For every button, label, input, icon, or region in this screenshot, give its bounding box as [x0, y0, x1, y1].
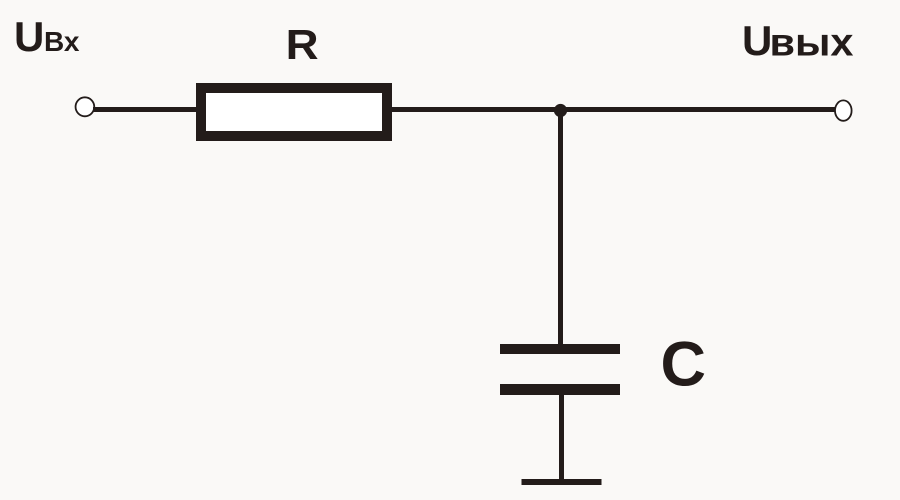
resistor R: [201, 21, 387, 136]
wire capacitor C to ground: [559, 393, 564, 480]
input terminal circle: [76, 97, 95, 116]
wire junction down to capacitor C: [558, 110, 563, 346]
ground: [522, 479, 602, 485]
svg-text:вых: вых: [770, 22, 854, 65]
svg-text:C: C: [661, 330, 707, 400]
wire resistor R to output terminal: [392, 107, 836, 112]
svg-text:Вх: Вх: [44, 26, 80, 57]
svg-text:R: R: [286, 21, 319, 68]
svg-text:U: U: [742, 17, 772, 64]
output terminal circle: [835, 100, 852, 120]
wire input terminal to resistor R: [93, 107, 200, 112]
node junction dot: [554, 104, 567, 117]
node Uвх (input label): [14, 13, 80, 60]
capacitor C: [500, 330, 706, 400]
node Uвых (output label): [742, 17, 854, 65]
svg-text:U: U: [14, 13, 44, 60]
